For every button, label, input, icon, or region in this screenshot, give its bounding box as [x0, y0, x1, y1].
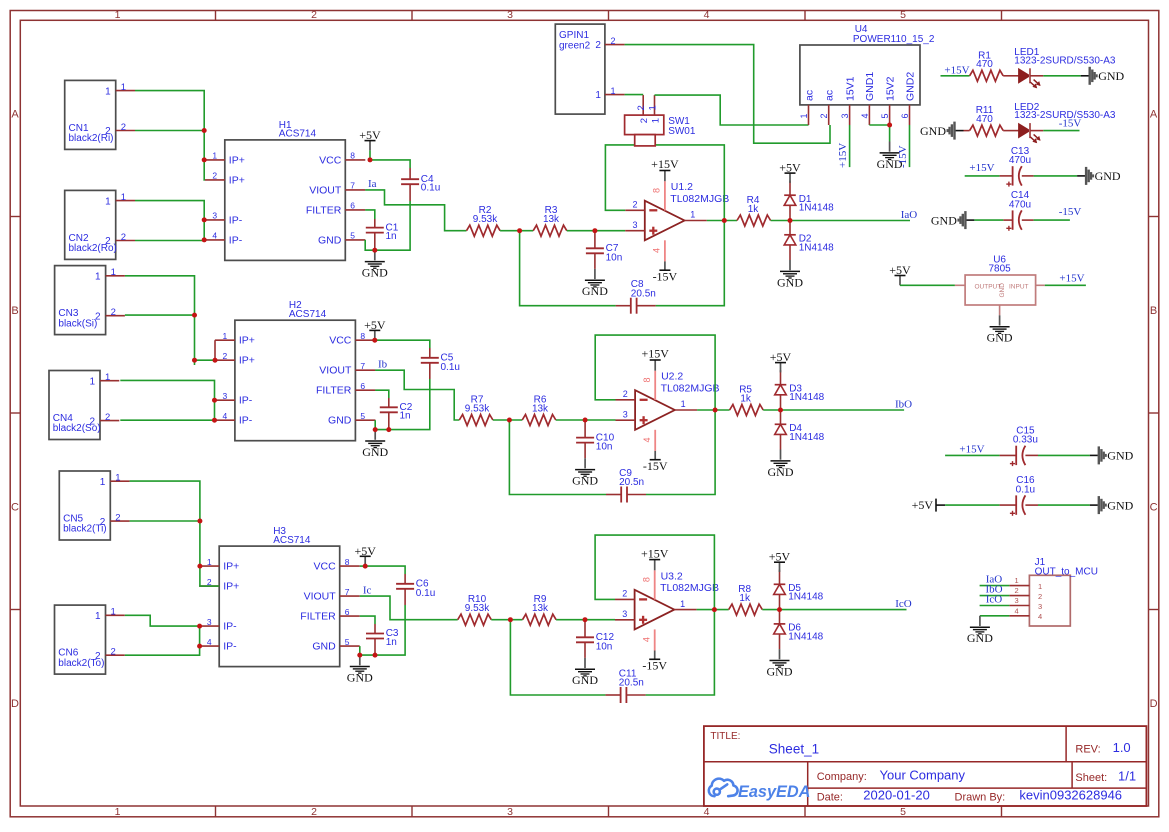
svg-text:1: 1 [681, 399, 686, 409]
svg-text:GND: GND [318, 234, 342, 246]
capacitor C12 top lead [584, 620, 586, 638]
svg-text:IaO: IaO [901, 209, 918, 221]
capacitor C12 [576, 636, 594, 638]
svg-text:FILTER: FILTER [316, 385, 352, 397]
wire IaO to J1 [980, 585, 1010, 587]
svg-text:GND1: GND1 [864, 72, 876, 101]
wire R2 to R3 [500, 230, 533, 232]
capacitor C8 [630, 298, 632, 314]
svg-text:GND: GND [767, 664, 793, 678]
svg-text:4: 4 [641, 637, 651, 642]
svg-text:+5V: +5V [770, 350, 792, 364]
wire C16 to GND [1025, 504, 1038, 506]
svg-text:7: 7 [350, 181, 355, 191]
svg-text:2: 2 [632, 200, 637, 210]
svg-text:1n: 1n [386, 231, 397, 242]
svg-text:1n: 1n [400, 411, 411, 422]
svg-text:1: 1 [1038, 582, 1042, 591]
svg-text:0.1u: 0.1u [441, 362, 460, 373]
wire LED2 to -15V [1030, 130, 1043, 132]
svg-text:3: 3 [207, 617, 212, 627]
svg-text:+5V: +5V [364, 318, 386, 332]
svg-text:15V2: 15V2 [884, 76, 896, 101]
svg-text:GND: GND [312, 641, 336, 653]
svg-text:10n: 10n [596, 442, 613, 453]
capacitor C4 top lead [409, 168, 411, 179]
svg-text:GND: GND [362, 266, 388, 280]
svg-text:VCC: VCC [329, 335, 352, 347]
svg-text:+5V: +5V [889, 263, 911, 277]
wire +15V to R1 [941, 75, 970, 77]
svg-text:0.1u: 0.1u [416, 588, 435, 599]
capacitor C3 top lead [374, 624, 376, 634]
capacitor C6 [396, 583, 414, 585]
wire GPIN1 pin2 to U4 ac2 [625, 45, 830, 144]
svg-text:TL082MJGB: TL082MJGB [670, 193, 729, 205]
svg-text:1N4148: 1N4148 [788, 592, 823, 603]
wire IbO [781, 409, 905, 411]
wire C6 to GND rail [360, 605, 405, 655]
wire R9 to opamp pin3 [556, 619, 615, 621]
svg-text:1: 1 [121, 192, 126, 203]
svg-text:1: 1 [647, 105, 658, 110]
svg-text:+15V: +15V [944, 64, 969, 76]
resistor R1 [970, 70, 1004, 81]
svg-text:2: 2 [311, 806, 317, 818]
resistor R7 [459, 415, 493, 426]
svg-text:U2.2: U2.2 [661, 371, 683, 383]
svg-text:470: 470 [976, 114, 993, 125]
svg-text:+15V: +15V [651, 157, 679, 171]
svg-text:3: 3 [622, 609, 627, 619]
svg-text:1: 1 [95, 272, 101, 283]
svg-text:1: 1 [611, 86, 616, 96]
svg-text:3: 3 [1038, 602, 1042, 611]
capacitor C7 bottom lead [594, 253, 596, 269]
svg-text:TITLE:: TITLE: [710, 731, 740, 742]
LED1 1323-2SURD/S530-A3 [1019, 69, 1030, 83]
svg-text:2020-01-20: 2020-01-20 [863, 788, 930, 803]
svg-text:REV:: REV: [1075, 744, 1100, 756]
wire CN4 pin1 to H2 IP- [120, 380, 214, 420]
gnd flag C14 [966, 219, 974, 221]
capacitor C1 top lead [374, 219, 376, 228]
wire +15V to C13 [965, 175, 1000, 177]
svg-text:IP+: IP+ [223, 561, 239, 573]
svg-text:2: 2 [611, 36, 616, 46]
svg-text:+5V: +5V [769, 550, 791, 564]
svg-text:3: 3 [507, 806, 513, 818]
ground at U4 [889, 125, 891, 142]
wire H1 GND pin to rail [365, 240, 375, 250]
svg-text:green2: green2 [559, 41, 591, 52]
capacitor C9 leads [606, 494, 621, 496]
wire C14 to -15V [1022, 219, 1034, 221]
EasyEDA logo [709, 779, 738, 797]
IC H1 ACS714 [225, 140, 345, 261]
svg-text:+15V: +15V [837, 143, 849, 168]
wire R8 to clamp [762, 609, 779, 611]
svg-text:1: 1 [121, 82, 126, 93]
svg-text:IP+: IP+ [229, 154, 245, 166]
svg-text:1: 1 [111, 267, 116, 278]
svg-text:IP-: IP- [239, 415, 253, 427]
svg-text:GND: GND [1107, 498, 1133, 512]
resistor R5 [730, 405, 764, 416]
wire GPIN1 pin1 to SW1 [625, 94, 644, 96]
capacitor C10 top lead [584, 420, 586, 438]
svg-text:7805: 7805 [988, 264, 1011, 275]
wire VIOUT Ib to R7 [375, 370, 459, 420]
op-amp U1.2 TL082MJGB [645, 201, 685, 241]
svg-text:2: 2 [223, 351, 228, 361]
capacitor C7 [586, 247, 604, 249]
svg-text:Sheet:: Sheet: [1075, 772, 1107, 784]
power flag +5V at H2 VCC [374, 331, 376, 341]
svg-text:D: D [1150, 698, 1158, 710]
svg-text:GND: GND [1107, 449, 1133, 463]
svg-text:13k: 13k [532, 403, 549, 414]
wire CN1/CN2 pin2 [135, 130, 204, 132]
capacitor C5 [421, 357, 439, 359]
svg-text:ACS714: ACS714 [289, 309, 327, 320]
wire VIOUT Ia to R2 [365, 190, 466, 231]
resistor R4 [737, 215, 771, 226]
svg-text:5: 5 [345, 637, 350, 647]
svg-text:OUTPUT: OUTPUT [975, 284, 1002, 291]
U6 gnd pin [999, 305, 1001, 315]
svg-text:4: 4 [1015, 606, 1019, 615]
svg-text:2: 2 [1038, 592, 1042, 601]
wire IcO [780, 609, 907, 611]
svg-text:1k: 1k [748, 204, 760, 215]
svg-text:C: C [11, 502, 19, 514]
wire SW1 pin1 to U4 pin1 [655, 95, 809, 125]
capacitor C14 470u [1012, 210, 1014, 229]
svg-text:20.5n: 20.5n [619, 477, 644, 488]
svg-text:5: 5 [350, 231, 355, 241]
svg-text:EasyEDA: EasyEDA [738, 783, 810, 801]
wire GND to C14 [974, 219, 1003, 221]
capacitor C5 bottom lead [429, 363, 431, 379]
resistor R3 [533, 225, 567, 236]
ground at C7 [594, 269, 596, 279]
svg-text:+5V: +5V [912, 498, 934, 512]
svg-text:0.33u: 0.33u [1013, 435, 1038, 446]
capacitor C10 bottom lead [584, 443, 586, 459]
svg-text:0.1u: 0.1u [421, 183, 440, 194]
svg-text:1: 1 [115, 9, 121, 21]
svg-text:A: A [11, 109, 19, 121]
ground at C10 [584, 458, 586, 468]
svg-text:2: 2 [212, 171, 217, 181]
svg-text:13k: 13k [543, 214, 560, 225]
op-amp U2.2 TL082MJGB [635, 390, 675, 430]
wire H2 pin1 drop [214, 340, 216, 360]
svg-text:IcO: IcO [895, 598, 912, 610]
svg-text:SW01: SW01 [668, 126, 696, 137]
svg-text:VCC: VCC [319, 154, 342, 166]
wire H3 GND pin down [359, 646, 361, 655]
svg-text:ACS714: ACS714 [279, 129, 317, 140]
gnd flag LED1 [1081, 75, 1089, 77]
svg-text:-15V: -15V [643, 459, 668, 473]
svg-text:1: 1 [799, 113, 809, 118]
svg-text:POWER110_15_2: POWER110_15_2 [853, 34, 935, 45]
svg-text:+15V: +15V [641, 546, 669, 560]
svg-text:4: 4 [207, 637, 212, 647]
power flag +5V at H1 VCC [369, 141, 371, 151]
capacitor C6 top lead [404, 574, 406, 584]
gnd flag R11 [956, 130, 964, 132]
svg-text:1: 1 [690, 210, 695, 220]
svg-text:1: 1 [105, 372, 110, 383]
svg-text:1n: 1n [386, 637, 397, 648]
svg-text:10n: 10n [606, 252, 623, 263]
svg-text:1: 1 [1015, 576, 1019, 585]
wire U3 output [697, 609, 729, 611]
svg-text:B: B [1150, 305, 1157, 317]
svg-text:10n: 10n [596, 641, 613, 652]
svg-text:8: 8 [360, 331, 365, 341]
wire VCC stub [360, 565, 366, 567]
wire R5 to clamp [763, 409, 780, 411]
svg-text:1: 1 [212, 151, 217, 161]
IC H2 ACS714 [235, 320, 356, 441]
svg-text:3: 3 [632, 220, 637, 230]
svg-text:GND: GND [768, 465, 794, 479]
wire C5 to GND rail [375, 379, 430, 430]
regulator U6 7805 [965, 275, 1036, 305]
capacitor C2 bottom lead [388, 412, 390, 429]
svg-text:470: 470 [976, 59, 993, 70]
svg-text:IcO: IcO [986, 593, 1003, 605]
connector J1 OUT_to_MCU [1029, 575, 1070, 626]
svg-text:8: 8 [345, 557, 350, 567]
svg-text:GND: GND [328, 415, 352, 427]
svg-text:8: 8 [652, 188, 662, 193]
svg-text:1/1: 1/1 [1118, 768, 1136, 783]
svg-text:4: 4 [704, 806, 710, 818]
svg-text:1: 1 [595, 90, 601, 101]
wire R11 to LED2 [1003, 130, 1018, 132]
svg-text:2: 2 [639, 118, 650, 123]
svg-text:GND: GND [967, 631, 993, 645]
svg-text:+15V: +15V [959, 444, 984, 456]
svg-text:IP+: IP+ [229, 174, 245, 186]
resistor R8 [729, 604, 763, 615]
wire VCC to C6 [365, 566, 405, 574]
svg-text:2: 2 [111, 647, 116, 658]
capacitor C1 bottom lead [374, 233, 376, 251]
svg-text:GND: GND [347, 670, 373, 684]
capacitor C11 leads [605, 694, 620, 696]
svg-text:-15V: -15V [1059, 117, 1082, 129]
capacitor C6 bottom lead [404, 589, 406, 605]
wire CN5 pin2 [130, 520, 200, 522]
power flag +5V at H3 VCC [364, 557, 366, 567]
svg-text:Ia: Ia [368, 178, 377, 190]
svg-text:2: 2 [121, 122, 126, 133]
svg-text:Ib: Ib [378, 359, 388, 371]
wire U4 pin4 to gnd node [869, 124, 889, 126]
capacitor C9 [620, 487, 622, 503]
wire R4 to clamp [771, 220, 790, 222]
gnd flag C15 [1090, 454, 1098, 456]
diodes D1 D2 clamp [789, 181, 791, 196]
connector CN1 [65, 80, 116, 149]
svg-text:OUT_to_MCU: OUT_to_MCU [1035, 566, 1098, 577]
capacitor C5 top lead [429, 348, 431, 358]
connector CN2 [65, 190, 116, 259]
svg-text:IP-: IP- [223, 621, 237, 633]
svg-text:8: 8 [350, 151, 355, 161]
svg-text:+15V: +15V [641, 347, 669, 361]
svg-text:9.53k: 9.53k [473, 214, 498, 225]
svg-text:1N4148: 1N4148 [799, 203, 834, 214]
svg-text:GND: GND [572, 673, 598, 687]
svg-text:7: 7 [360, 361, 365, 371]
resistor R10 [458, 614, 492, 625]
capacitor C1 [366, 227, 384, 229]
wire R10 to R9 [491, 619, 522, 621]
svg-text:GND: GND [362, 445, 388, 459]
capacitor C15 0.33u [1015, 446, 1017, 465]
wire C15 to GND [1025, 454, 1038, 456]
svg-text:kevin0932628946: kevin0932628946 [1019, 788, 1122, 803]
svg-text:470u: 470u [1009, 199, 1031, 210]
connector CN4 [49, 371, 100, 440]
wire U1 output [707, 220, 737, 222]
svg-text:2: 2 [115, 512, 120, 523]
svg-text:3: 3 [507, 9, 513, 21]
svg-text:0.1u: 0.1u [1016, 484, 1035, 495]
wire IcO to J1 [980, 605, 1010, 607]
svg-text:GND: GND [572, 474, 598, 488]
svg-text:-15V: -15V [897, 145, 909, 168]
svg-text:2: 2 [622, 589, 627, 599]
svg-text:3: 3 [840, 113, 850, 118]
svg-text:VCC: VCC [314, 561, 337, 573]
svg-text:470u: 470u [1009, 155, 1031, 166]
capacitor C7 top lead [594, 231, 596, 249]
svg-text:IP-: IP- [229, 234, 243, 246]
svg-text:+5V: +5V [359, 128, 381, 142]
svg-text:5: 5 [880, 113, 890, 118]
junction dots [202, 128, 207, 133]
capacitor C3 [366, 633, 384, 635]
wire H1 FILTER to C1 [365, 210, 375, 219]
svg-text:5: 5 [900, 9, 906, 21]
wire H2 GND pin down [374, 420, 376, 429]
wire U6 input +15V [1036, 284, 1045, 286]
svg-text:2: 2 [595, 40, 601, 51]
svg-text:20.5n: 20.5n [619, 678, 644, 689]
svg-text:black2(Ti): black2(Ti) [63, 524, 107, 535]
svg-text:U1.2: U1.2 [671, 181, 693, 193]
svg-text:Your Company: Your Company [880, 767, 966, 782]
feedback wire U1 pin2 [605, 145, 724, 306]
svg-text:IP+: IP+ [223, 581, 239, 593]
capacitor C4 [401, 178, 419, 180]
svg-text:1: 1 [115, 473, 120, 484]
IC H3 ACS714 [219, 546, 340, 667]
capacitor C13 470u [1012, 166, 1014, 185]
resistor R2 [467, 225, 501, 236]
svg-text:Drawn By:: Drawn By: [955, 792, 1006, 804]
svg-text:TL082MJGB: TL082MJGB [660, 582, 719, 594]
svg-text:2: 2 [1015, 586, 1019, 595]
svg-text:2: 2 [819, 113, 829, 118]
svg-text:3: 3 [223, 391, 228, 401]
svg-text:9.53k: 9.53k [465, 603, 490, 614]
ground at H1 [374, 250, 376, 260]
svg-text:8: 8 [642, 377, 652, 382]
svg-text:VIOUT: VIOUT [309, 184, 342, 196]
svg-text:black2(So): black2(So) [53, 423, 101, 434]
wire C9 to R7/R6 node [509, 420, 606, 495]
wire R7 to R6 [493, 419, 522, 421]
svg-text:1323-2SURD/S530-A3: 1323-2SURD/S530-A3 [1014, 55, 1116, 66]
svg-text:4: 4 [212, 231, 217, 241]
svg-text:Company:: Company: [817, 771, 867, 783]
ground at J1 [979, 616, 981, 626]
resistor R9 [523, 614, 557, 625]
svg-text:4: 4 [652, 248, 662, 253]
capacitor C16 0.1u [1015, 495, 1017, 514]
wire +5V to VCC H1 [369, 150, 371, 160]
wire H3 FILTER to C3 [360, 616, 375, 624]
wire R1 to LED1 [1003, 75, 1018, 77]
svg-text:1N4148: 1N4148 [789, 392, 824, 403]
svg-text:1N4148: 1N4148 [799, 242, 834, 253]
svg-text:black(Si): black(Si) [58, 318, 97, 329]
svg-text:-15V: -15V [1059, 206, 1082, 218]
ground at H2 [374, 430, 376, 440]
capacitor C2 top lead [388, 398, 390, 407]
svg-text:13k: 13k [532, 603, 549, 614]
title block [704, 726, 1147, 806]
svg-text:A: A [1150, 109, 1158, 121]
feedback wire U3 pin2 [595, 535, 714, 695]
wire R6 to opamp pin3 [556, 419, 616, 421]
wire J1 pin4 gnd [980, 615, 1010, 617]
svg-text:1: 1 [650, 118, 661, 123]
svg-text:Sheet_1: Sheet_1 [769, 741, 819, 756]
svg-text:IbO: IbO [895, 399, 912, 411]
svg-text:4: 4 [860, 113, 870, 118]
capacitor C12 bottom lead [584, 642, 586, 658]
svg-text:-15V: -15V [653, 269, 678, 283]
gnd flag C13 [1077, 175, 1085, 177]
svg-text:3: 3 [623, 410, 628, 420]
wire CN2 pin1 to H1 IP- [135, 201, 204, 241]
connector CN3 [55, 266, 106, 335]
capacitor C8 leads [616, 305, 631, 307]
svg-text:GND: GND [931, 213, 957, 227]
svg-text:+15V: +15V [969, 162, 994, 174]
svg-text:TL082MJGB: TL082MJGB [661, 383, 720, 395]
svg-text:IP-: IP- [239, 395, 253, 407]
wire CN1 pin1 to H1 IP+ [135, 91, 205, 180]
svg-text:4: 4 [223, 411, 228, 421]
connector CN5 [59, 471, 110, 540]
svg-text:FILTER: FILTER [300, 611, 336, 623]
op-amp U3.2 TL082MJGB [635, 590, 675, 630]
connector GPIN1 green2 [555, 24, 605, 114]
svg-text:+15V: +15V [1059, 273, 1084, 285]
resistor R6 [522, 415, 556, 426]
